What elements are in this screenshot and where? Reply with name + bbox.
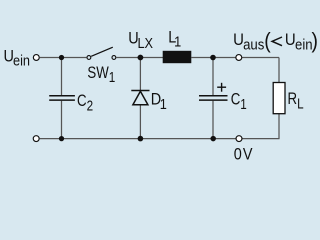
wire: vertical from RL bottom to ground rail (278, 114, 280, 139)
wire: D1 branch lower vertical (139, 105, 141, 139)
svg-text:): ) (312, 29, 318, 53)
wire: ground rail (0V bottom wire) (40, 138, 280, 140)
capacitor C1 (polarized) (199, 96, 228, 100)
wire: C1 branch upper vertical (212, 58, 214, 96)
terminal Uein (input, open circle) (33, 55, 39, 61)
node junction at C2 top (59, 55, 64, 60)
switch SW1 (87, 47, 116, 59)
svg-text:(: ( (264, 29, 271, 53)
wire: C1 branch lower vertical (212, 101, 214, 139)
resistor RL (273, 83, 285, 114)
terminal input return (bottom left open circle) (33, 136, 39, 142)
diode D1 (131, 91, 149, 105)
node junction at C1 top (210, 55, 216, 61)
wire: top rail middle segment (SW1 to L1) (116, 57, 163, 59)
wire: D1 branch upper vertical (139, 58, 141, 91)
label Uaus (< Uein) (233, 29, 318, 53)
wire: top rail left segment (Uein terminal to SW1) (40, 57, 87, 59)
wire: vertical from top rail down to RL top (278, 58, 280, 83)
inductor L1 (163, 51, 192, 63)
wire: top rail right segment (L1 to corner above RL) (191, 57, 279, 59)
terminal 0V (open circle on ground rail) (236, 136, 242, 142)
wire: C2 branch lower vertical (61, 101, 63, 139)
node junction at C1 bottom (210, 136, 216, 142)
node junction at D1 bottom (138, 136, 144, 142)
node junction at C2 bottom (59, 136, 64, 141)
node U_LX junction (138, 55, 144, 61)
capacitor C2 (49, 96, 75, 100)
terminal Uaus (output, open circle) (236, 55, 242, 61)
svg-text:0: 0 (234, 145, 242, 163)
plus sign of C1 (217, 83, 226, 92)
wire: C2 branch upper vertical (61, 58, 63, 96)
svg-text:V: V (243, 145, 253, 163)
